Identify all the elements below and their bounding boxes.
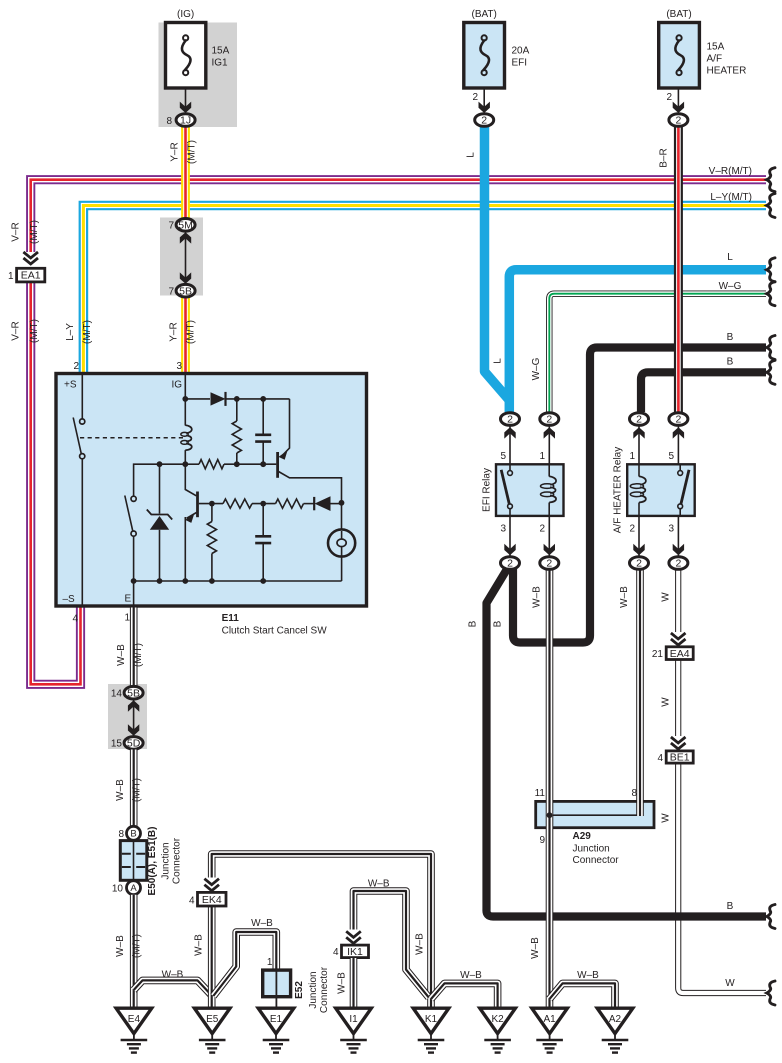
svg-text:5: 5 [668, 451, 674, 462]
svg-text:L: L [465, 152, 476, 158]
svg-text:W–B: W–B [337, 972, 348, 994]
junction node inside A29 [547, 812, 553, 818]
arrow down into 5B [180, 272, 191, 283]
wire top branch with diode [185, 398, 210, 400]
svg-text:(BAT): (BAT) [472, 9, 497, 20]
svg-text:8: 8 [166, 116, 172, 127]
svg-text:(M/T): (M/T) [29, 220, 40, 244]
A/F relay pin 5 wire and arrow [677, 426, 679, 464]
pin A of E50 [127, 881, 141, 895]
wire L bus to right edge [509, 270, 766, 412]
svg-text:(M/T): (M/T) [82, 320, 93, 344]
connector 2 above AF relay pin1 [630, 413, 649, 426]
svg-text:B: B [727, 332, 734, 343]
svg-text:2: 2 [675, 115, 681, 127]
svg-text:7: 7 [168, 221, 174, 232]
relay A/F HEATER Relay body [627, 464, 695, 516]
node rail 5 [260, 578, 266, 584]
svg-text:(M/T): (M/T) [132, 934, 143, 958]
arrow into EA1 [23, 252, 38, 258]
svg-text:EA1: EA1 [21, 270, 41, 282]
ground I1 [336, 1008, 372, 1033]
svg-text:2: 2 [73, 361, 79, 372]
node rail 1 [131, 578, 137, 584]
wire W-B branch from K1 riser to ground K2 [431, 983, 498, 1007]
node lamp top [339, 500, 345, 506]
svg-text:1: 1 [8, 271, 14, 282]
node base row mid 2 [260, 461, 266, 467]
svg-text:2: 2 [546, 414, 552, 426]
wire V-R loop from below EA1 to -S pin [31, 282, 81, 685]
connector 2 below AF relay pin2 [630, 557, 649, 570]
svg-text:A: A [130, 883, 137, 894]
svg-text:14: 14 [111, 689, 123, 700]
svg-text:3: 3 [668, 524, 674, 535]
node base row mid 1 [234, 461, 240, 467]
arrow into 1J [180, 102, 191, 113]
base resistor row [185, 463, 199, 465]
svg-text:HEATER: HEATER [707, 66, 747, 77]
svg-text:20A: 20A [512, 46, 530, 57]
EFI relay pin 3 wire and arrow [509, 516, 511, 556]
continuation brace W-G [767, 282, 775, 306]
EFI relay pin 5 wire and arrow [509, 426, 511, 464]
svg-text:4: 4 [333, 947, 339, 958]
arrow into IK1 [346, 931, 361, 937]
continuation brace B second [767, 360, 775, 384]
svg-text:E: E [125, 594, 132, 605]
ground E4 [116, 1008, 152, 1033]
svg-text:B: B [130, 829, 136, 840]
node IG top [182, 396, 188, 402]
svg-text:2: 2 [539, 524, 545, 535]
fuse 15A A/F HEATER body [659, 23, 700, 89]
capacitor C1 in E11 [262, 399, 264, 435]
continuation brace V-R [767, 168, 775, 192]
wire to transistor Q2 emitter [282, 399, 290, 456]
svg-text:EA4: EA4 [670, 648, 690, 660]
continuation brace B upper [767, 336, 775, 360]
svg-text:W–B: W–B [530, 937, 541, 959]
svg-text:15A: 15A [707, 42, 725, 53]
transistor Q1 emitter [187, 513, 197, 519]
svg-text:10: 10 [112, 884, 124, 895]
svg-text:8: 8 [118, 829, 124, 840]
clutch start cancel switch E11 body [56, 374, 367, 607]
svg-text:L: L [493, 358, 504, 364]
connector 5M [176, 219, 195, 232]
node top mid 2 [260, 396, 266, 402]
capacitor C2 in E11 [262, 504, 264, 537]
A/F relay pin 2 wire and arrow [638, 516, 640, 556]
connector 2 above EFI relay pin5 [501, 413, 520, 426]
svg-text:1: 1 [267, 957, 273, 968]
node rail 2 [157, 578, 163, 584]
wire W-B from E50 A pin to ground E4 [130, 895, 138, 1008]
zener diode in E11 [159, 464, 161, 513]
wire W-B branch from E4 riser to ground E5 [134, 980, 212, 995]
svg-text:Connector: Connector [319, 966, 330, 1013]
continuation brace L [767, 258, 775, 282]
svg-text:W–B: W–B [193, 934, 204, 956]
arrow into EFI fuse connector [479, 102, 490, 113]
node base row left [182, 461, 188, 467]
connector 2 below EFI relay pin3 [501, 557, 520, 570]
svg-text:Connector: Connector [172, 837, 183, 884]
wire B second bus to right edge, down to A/F heater relay pin 1 [641, 372, 766, 412]
svg-text:EFI: EFI [512, 58, 528, 69]
wire W-B from EFI relay pin 2 through A29 pin 11-9 to ground A1 [546, 569, 554, 1008]
connector 2 below A/F fuse [669, 114, 688, 127]
svg-text:L–Y(M/T): L–Y(M/T) [710, 192, 752, 203]
wire B from EFI relay pin 3 to bottom right edge [486, 565, 766, 917]
svg-text:V–R: V–R [11, 321, 22, 340]
svg-text:1: 1 [539, 451, 545, 462]
wire W-B from E pin to 5B [130, 608, 138, 687]
svg-text:–S: –S [63, 594, 76, 605]
svg-text:2: 2 [666, 92, 672, 103]
svg-text:2: 2 [675, 558, 681, 570]
dashed link from switch to relay coil [80, 437, 184, 439]
bottom rail of E11 [134, 557, 342, 582]
svg-text:2: 2 [636, 558, 642, 570]
wire Y-R from fuse 1J to 5M [181, 125, 190, 219]
svg-text:11: 11 [535, 788, 546, 799]
arrow up into 5M [180, 232, 191, 243]
wire clutch switch to -S [81, 459, 83, 606]
svg-text:W–B: W–B [251, 918, 273, 929]
indicator lamp in E11 [341, 503, 343, 530]
connector EA4 [666, 647, 693, 660]
connector shading for 5B-5D junction [108, 684, 147, 749]
connector BE1 [666, 751, 693, 763]
wire Y-R from 5B to IG pin [181, 296, 190, 373]
connector EK4 [198, 892, 227, 906]
svg-text:Y–R: Y–R [169, 322, 180, 341]
svg-text:W–B: W–B [619, 586, 630, 608]
wire coil to resistor row node [184, 450, 186, 464]
connector IK1 [342, 945, 369, 958]
svg-text:W–B: W–B [415, 933, 426, 955]
ground K1 [413, 1008, 449, 1033]
svg-text:V–R: V–R [11, 222, 22, 241]
svg-text:(M/T): (M/T) [133, 643, 144, 667]
svg-text:2: 2 [507, 558, 513, 570]
svg-text:E50(A), E51(B): E50(A), E51(B) [147, 827, 158, 896]
svg-text:15: 15 [111, 739, 123, 750]
svg-text:2: 2 [507, 414, 513, 426]
svg-text:3: 3 [176, 361, 182, 372]
diode D2 in E11 [313, 497, 315, 510]
relay EFI Relay coil [548, 464, 550, 476]
svg-text:A1: A1 [543, 1014, 556, 1025]
connector 5B [176, 284, 195, 297]
wire W from A/F relay pin 3 to EA4 [675, 569, 681, 632]
wire L from EFI fuse to relay [485, 124, 509, 400]
wire W-B from A/F relay pin 2 to A29 pin 8 [636, 569, 644, 816]
svg-text:4: 4 [657, 753, 663, 764]
connector 2 above EFI relay pin1 [540, 413, 559, 426]
pin B of E50 [127, 826, 141, 840]
wire W-B from EK4 down to ground E5 [208, 907, 216, 1008]
relay EFI Relay body [496, 464, 564, 516]
svg-text:Connector: Connector [573, 855, 620, 866]
fuse 15A IG1 body [166, 23, 206, 89]
connector shading for 5M-5B junction [160, 218, 203, 296]
node rail 3 [182, 578, 188, 584]
svg-text:IG1: IG1 [212, 58, 229, 69]
svg-text:2: 2 [629, 524, 635, 535]
wire W-G bus to right edge [549, 294, 766, 412]
svg-text:BE1: BE1 [670, 752, 690, 764]
connector EA1 [17, 268, 45, 282]
relay A/F HEATER Relay coil [638, 464, 640, 476]
junction connector A29 box [536, 801, 654, 827]
EFI relay pin 2 wire and arrow [548, 516, 550, 556]
svg-text:E1: E1 [270, 1014, 283, 1025]
svg-text:21: 21 [652, 649, 664, 660]
continuation brace B bottom [767, 905, 775, 929]
svg-text:E52: E52 [294, 981, 305, 999]
svg-text:W–B: W–B [577, 970, 599, 981]
svg-text:A/F: A/F [707, 54, 723, 65]
node mid lower row [260, 501, 266, 507]
svg-text:W–B: W–B [115, 935, 126, 957]
svg-text:5: 5 [500, 451, 506, 462]
wire W-B from EK4 over to ground K1 [212, 854, 431, 1008]
wire W from EA4 to BE1 [675, 660, 681, 737]
ground K2 [480, 1008, 516, 1033]
wire E pin from rail [133, 581, 135, 606]
svg-text:E5: E5 [206, 1014, 219, 1025]
svg-text:W–B: W–B [532, 586, 543, 608]
wire IG down to coil node [184, 375, 186, 426]
ground E5 [194, 1008, 230, 1033]
svg-text:Junction: Junction [573, 844, 610, 855]
continuation brace L-Y [767, 194, 775, 218]
svg-text:Clutch Start Cancel SW: Clutch Start Cancel SW [222, 626, 328, 637]
transistor Q2 collector [279, 472, 342, 503]
transistor Q2 emitter arrow [279, 451, 288, 460]
svg-text:W: W [660, 697, 671, 707]
svg-text:W–B: W–B [162, 970, 184, 981]
svg-text:7: 7 [168, 287, 174, 298]
svg-text:2: 2 [675, 414, 681, 426]
svg-text:(BAT): (BAT) [666, 9, 691, 20]
node zener top [157, 461, 163, 467]
svg-text:W: W [660, 813, 671, 823]
arrow into EK4 [204, 879, 219, 885]
svg-text:W–B: W–B [368, 879, 390, 890]
wire from fuse A/F to connector [677, 88, 679, 112]
wire W-B elbow from E5 riser to E52 [213, 932, 276, 996]
node top mid 1 [234, 396, 240, 402]
wire +S to clutch switch [81, 375, 83, 419]
svg-text:W–B: W–B [115, 779, 126, 801]
connector 1J [176, 114, 195, 127]
wire B bus upper to right edge, down between relays and jog to EFI relay pin 3 [513, 348, 766, 643]
svg-text:15A: 15A [212, 46, 230, 57]
svg-text:Y–R: Y–R [170, 142, 181, 161]
wire W-B from IK1 to ground I1 [350, 958, 358, 1008]
EFI relay pin 1 wire and arrow [548, 426, 550, 464]
wire W-B branch from A1 riser to ground A2 [550, 983, 616, 1007]
svg-text:(IG): (IG) [177, 9, 194, 20]
wire from fuse EFI to connector [483, 88, 485, 112]
relay EFI Relay switch contacts [509, 464, 511, 470]
wire L-Y(M/T) bus to right edge and down to +S pin [83, 206, 766, 374]
svg-text:E4: E4 [128, 1014, 141, 1025]
svg-text:L: L [727, 252, 733, 263]
node rail 4 [209, 578, 215, 584]
connector 2 below AF relay pin3 [669, 557, 688, 570]
connector shading for fuse IG1 [159, 23, 238, 128]
A/F relay pin 1 wire and arrow [638, 426, 640, 464]
relay coil in E11 [185, 425, 191, 450]
svg-text:2: 2 [472, 92, 478, 103]
svg-text:(M/T): (M/T) [132, 778, 143, 802]
svg-text:Junction: Junction [161, 842, 172, 879]
node Q1 base [209, 501, 215, 507]
svg-text:2: 2 [546, 558, 552, 570]
transistor Q2 base bar [276, 452, 279, 478]
svg-text:A2: A2 [609, 1014, 622, 1025]
ground E1 [258, 1008, 294, 1033]
wire W-B from IK1 horizontal to K1 riser [354, 891, 429, 998]
arrow into EA4 [671, 633, 686, 639]
junction connector E50(A) E51(B) body [120, 841, 147, 881]
diode D1 in E11 [211, 392, 226, 405]
svg-text:W: W [725, 978, 735, 989]
svg-text:IK1: IK1 [347, 946, 363, 958]
ground A1 [532, 1008, 568, 1033]
svg-text:A/F HEATER Relay: A/F HEATER Relay [612, 447, 623, 534]
svg-text:A29: A29 [573, 831, 592, 842]
wire from fuse IG1 to connector 1J [185, 88, 187, 112]
svg-text:5D: 5D [127, 738, 141, 750]
ground A2 [597, 1008, 633, 1033]
svg-text:(M/T): (M/T) [186, 320, 197, 344]
svg-text:K2: K2 [491, 1014, 504, 1025]
svg-text:5B: 5B [179, 285, 192, 297]
svg-text:B: B [727, 357, 734, 368]
svg-text:I1: I1 [349, 1014, 358, 1025]
connector 5B lower [124, 686, 143, 699]
svg-text:E11: E11 [222, 613, 240, 624]
svg-text:4: 4 [189, 896, 195, 907]
svg-text:1J: 1J [180, 115, 191, 127]
connector 2 below EFI fuse [475, 114, 494, 127]
svg-text:Junction: Junction [308, 971, 319, 1008]
wire from base row to switch 2 and zener [134, 464, 186, 496]
svg-text:L–Y: L–Y [65, 323, 76, 341]
relay A/F HEATER Relay switch contacts [679, 464, 681, 470]
clutch pedal switch in E11 [80, 419, 85, 424]
resistor R1 vertical in E11 [236, 399, 238, 421]
connector 2 below EFI relay pin2 [540, 557, 559, 570]
svg-text:B: B [468, 620, 479, 627]
wire between 5B and 5D [133, 700, 135, 736]
svg-text:1: 1 [629, 451, 635, 462]
svg-text:3: 3 [500, 524, 506, 535]
transistor Q1 collector wire [185, 464, 196, 496]
svg-text:4: 4 [72, 614, 78, 625]
svg-text:W: W [660, 592, 671, 602]
junction connector E52 body [263, 970, 291, 997]
A/F relay pin 3 wire and arrow [677, 516, 679, 556]
arrow into BE1 [671, 737, 686, 743]
transistor Q1 base row [199, 503, 223, 505]
arrow up into 5B lower [128, 700, 139, 711]
connector 5D [124, 737, 143, 750]
svg-text:(M/T): (M/T) [187, 140, 198, 164]
fuse 20A EFI body [464, 23, 505, 89]
wire W-B from 5D to E50 B pin [130, 750, 138, 827]
svg-text:B: B [727, 901, 734, 912]
arrow down into 5D [128, 724, 139, 735]
svg-text:(M/T): (M/T) [29, 319, 40, 343]
svg-text:5M: 5M [178, 220, 193, 232]
transistor Q1 base bar [196, 492, 199, 518]
continuation brace W bottom [767, 981, 775, 1005]
svg-text:K1: K1 [425, 1014, 438, 1025]
svg-text:W–B: W–B [116, 644, 127, 666]
svg-text:IG: IG [172, 380, 183, 391]
svg-text:2: 2 [636, 414, 642, 426]
wire V-R(M/T) bus to right edge and down to EA1 [31, 180, 766, 252]
svg-text:2: 2 [481, 115, 487, 127]
switch 2 in E11 [131, 496, 136, 501]
svg-text:EFI Relay: EFI Relay [482, 468, 493, 512]
svg-text:5B: 5B [127, 687, 140, 699]
svg-text:9: 9 [539, 835, 545, 846]
resistor R3 vertical [211, 504, 213, 522]
arrow into A/F fuse connector [673, 102, 684, 113]
wire between 5M and 5B [185, 232, 187, 284]
svg-text:W–G: W–G [531, 357, 542, 380]
svg-text:B–R: B–R [658, 148, 669, 167]
wire W from BE1 to bottom right edge [678, 763, 766, 993]
svg-text:W–G: W–G [719, 281, 742, 292]
svg-text:EK4: EK4 [202, 894, 222, 906]
svg-text:V–R(M/T): V–R(M/T) [709, 166, 752, 177]
svg-text:+S: +S [64, 380, 77, 391]
wire B-R from A/F HEATER fuse down to relay pin 5 [674, 125, 683, 412]
wire from E52 to ground E1 [275, 997, 277, 1008]
svg-text:B: B [493, 620, 504, 627]
svg-text:W–B: W–B [460, 970, 482, 981]
svg-text:1: 1 [124, 613, 130, 624]
connector 2 above AF relay pin5 [669, 413, 688, 426]
